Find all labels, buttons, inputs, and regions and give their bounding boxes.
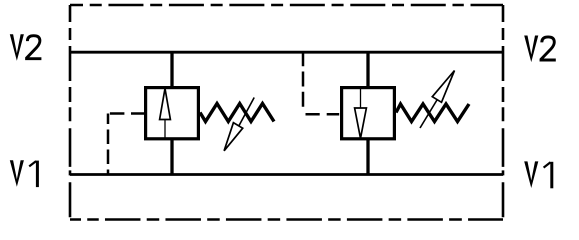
port label V1 right (524, 161, 552, 188)
RV2 flow arrow (down) (355, 88, 367, 139)
net V1 line (70, 173, 503, 176)
relief valve RV1 body (146, 88, 199, 139)
enclosure border (dash-dot manifold outline) (70, 5, 503, 220)
net V2 line (70, 51, 503, 54)
wire RV1 to V2 (170, 52, 173, 87)
wire RV1 to V1 (170, 139, 173, 175)
RV1 adjustment arrow (diagonal, head down-left) (224, 98, 254, 151)
port label V1 left (10, 160, 38, 187)
RV2 pilot line (dashed to V2) (303, 52, 340, 114)
RV2 adjustment arrow (diagonal, head up-right) (420, 71, 455, 129)
RV1 pilot line (dashed to V1) (108, 114, 144, 175)
port label V2 left (10, 34, 42, 61)
RV2 spring (396, 104, 469, 122)
relief valve RV2 body (342, 88, 395, 139)
wire RV2 to V1 (366, 139, 369, 175)
RV1 flow arrow (up) (160, 89, 171, 139)
RV1 spring (200, 104, 274, 122)
port label V2 right (524, 36, 556, 63)
wire RV2 to V2 (366, 52, 369, 87)
